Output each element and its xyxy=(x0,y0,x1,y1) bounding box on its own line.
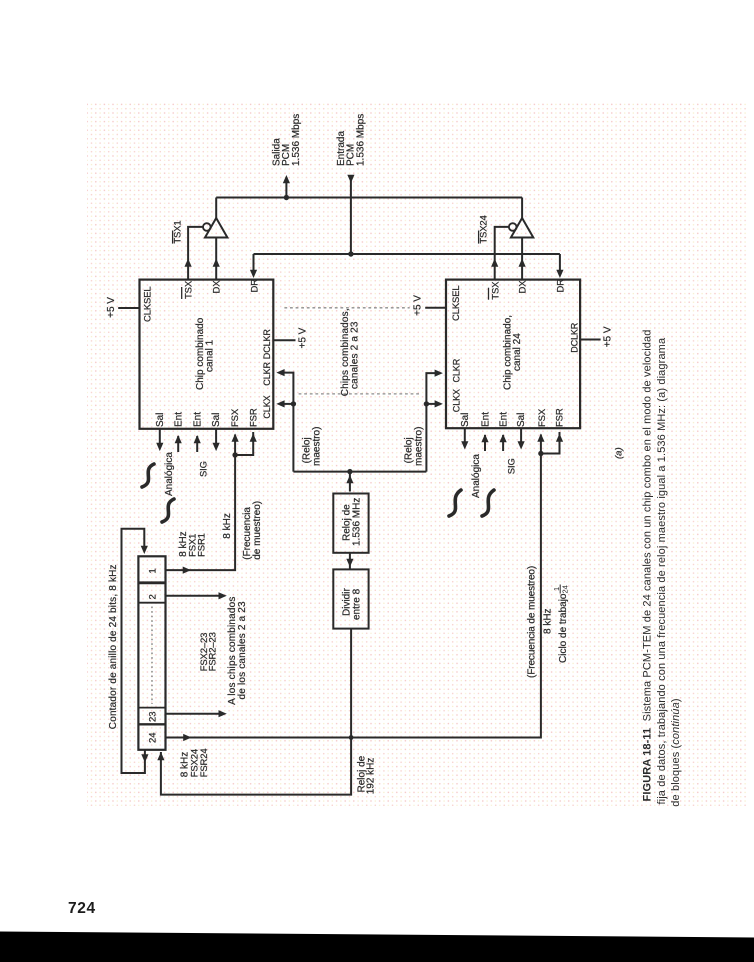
svg-text:FSR: FSR xyxy=(555,408,566,427)
svg-text:1.536 MHz: 1.536 MHz xyxy=(352,498,363,546)
svg-text:24: 24 xyxy=(148,732,159,743)
svg-text:DR: DR xyxy=(249,279,260,293)
svg-text:canal 1: canal 1 xyxy=(205,339,216,372)
svg-text:1.536 Mbps: 1.536 Mbps xyxy=(291,114,302,166)
svg-text:TSX24: TSX24 xyxy=(479,215,490,243)
svg-text:Ciclo de trabajo: Ciclo de trabajo xyxy=(558,593,569,663)
svg-text:TSX: TSX xyxy=(184,280,195,299)
svg-text:entre 8: entre 8 xyxy=(352,588,363,620)
svg-text:Ent: Ent xyxy=(173,412,184,427)
svg-text:CLKX: CLKX xyxy=(452,389,462,412)
svg-text:8 kHz: 8 kHz xyxy=(543,608,554,634)
svg-text:FSX: FSX xyxy=(230,408,241,427)
svg-text:Sal: Sal xyxy=(155,413,166,427)
svg-text:Sal: Sal xyxy=(211,413,222,427)
svg-text:+5 V: +5 V xyxy=(298,327,309,348)
svg-text:DX: DX xyxy=(517,280,528,294)
svg-text:+5 V: +5 V xyxy=(106,297,117,318)
svg-text:canal 24: canal 24 xyxy=(512,333,523,371)
svg-text:DX: DX xyxy=(212,280,223,294)
svg-text:CLKX: CLKX xyxy=(262,395,272,418)
svg-text:FSR24: FSR24 xyxy=(199,748,210,777)
svg-text:FSR2–23: FSR2–23 xyxy=(208,632,219,671)
svg-text:Ent: Ent xyxy=(498,412,509,427)
svg-text:724: 724 xyxy=(68,900,96,917)
svg-text:Contador de anillo de 24 bits,: Contador de anillo de 24 bits, 8 kHz xyxy=(108,564,119,729)
svg-text:(Frecuencia de muestreo): (Frecuencia de muestreo) xyxy=(527,566,538,678)
svg-text:fija de datos, trabajando con: fija de datos, trabajando con una frecue… xyxy=(656,337,668,804)
svg-text:CLKSEL: CLKSEL xyxy=(142,286,153,322)
svg-text:de bloques (continúa): de bloques (continúa) xyxy=(670,698,682,806)
svg-text:FSR: FSR xyxy=(248,408,259,427)
svg-text:de muestreo): de muestreo) xyxy=(252,501,263,560)
svg-text:+5 V: +5 V xyxy=(603,326,614,347)
svg-text:8 kHz: 8 kHz xyxy=(222,513,233,539)
svg-text:Sal: Sal xyxy=(516,413,527,427)
svg-text:+5 V: +5 V xyxy=(413,295,424,316)
svg-text:(a): (a) xyxy=(614,447,625,459)
svg-text:DCLKR: DCLKR xyxy=(570,322,580,353)
svg-text:FSR1: FSR1 xyxy=(197,533,208,557)
svg-text:TSX1: TSX1 xyxy=(173,220,184,243)
svg-text:maestro): maestro) xyxy=(414,427,425,466)
svg-text:Ent: Ent xyxy=(192,412,203,427)
svg-text:CLKSEL: CLKSEL xyxy=(451,285,462,321)
svg-text:canales 2 a 23: canales 2 a 23 xyxy=(350,321,361,389)
svg-text:FSX: FSX xyxy=(537,408,548,427)
svg-text:DR: DR xyxy=(556,279,567,293)
svg-text:Sal: Sal xyxy=(460,413,471,427)
svg-text:de los canales 2 a 23: de los canales 2 a 23 xyxy=(237,601,248,700)
svg-text:1: 1 xyxy=(147,568,158,573)
svg-text:TSX: TSX xyxy=(490,281,501,300)
svg-text:CLKR: CLKR xyxy=(452,358,462,382)
svg-text:Ent: Ent xyxy=(480,412,491,427)
svg-text:192 kHz: 192 kHz xyxy=(366,758,377,795)
svg-text:1.536 Mbps: 1.536 Mbps xyxy=(356,114,367,166)
svg-text:SIG: SIG xyxy=(506,458,517,474)
svg-text:SIG: SIG xyxy=(199,461,210,477)
svg-text:Analógica: Analógica xyxy=(164,452,175,496)
svg-text:DCLKR: DCLKR xyxy=(262,329,272,360)
svg-text:CLKR: CLKR xyxy=(262,361,272,385)
svg-text:23: 23 xyxy=(148,711,159,722)
svg-text:FIGURA 18-11 Sistema PCM-TEM: FIGURA 18-11 Sistema PCM-TEM de 24 canal… xyxy=(642,329,654,801)
svg-text:maestro): maestro) xyxy=(312,427,323,466)
svg-text:Analógica: Analógica xyxy=(471,454,482,498)
svg-text:24: 24 xyxy=(560,585,569,593)
svg-text:2: 2 xyxy=(148,594,159,599)
